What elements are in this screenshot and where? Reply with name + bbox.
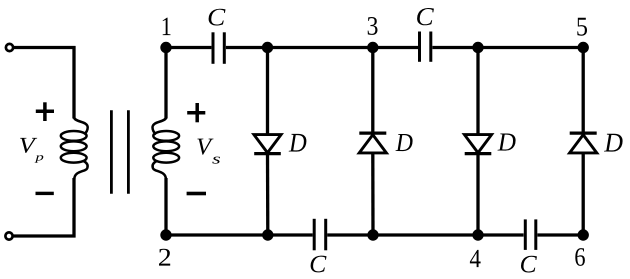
capacitor C2 [420, 32, 431, 62]
label D4 [604, 134, 623, 152]
node 2 [160, 229, 171, 240]
wire col2 top [371, 48, 374, 134]
wire bottom bus: node2 to C3 [166, 233, 313, 236]
transformer core [111, 110, 128, 193]
label D1 [289, 134, 307, 152]
wire col3 bottom [476, 154, 479, 235]
label C1 [209, 9, 226, 26]
wire col1 top [266, 48, 269, 136]
label 2 [159, 249, 170, 266]
wire J2 to primary bottom [14, 234, 76, 237]
label 6 [575, 248, 585, 266]
diode D4 (up) [570, 133, 597, 153]
label minus (primary) [36, 192, 54, 195]
wire col3 top [476, 48, 479, 136]
wire primary vertical bottom [72, 178, 75, 238]
inductor primary winding [61, 117, 88, 179]
capacitor C1 [213, 32, 224, 64]
wire top bus: C2 to node5 [432, 46, 583, 49]
label 1 [163, 18, 171, 35]
label C2 [417, 8, 434, 25]
capacitor C4 [525, 219, 536, 250]
inductor secondary winding [153, 117, 180, 179]
label 3 [368, 17, 378, 35]
wire top bus: C1 to C2 [226, 46, 418, 49]
junction top col3 [472, 42, 483, 53]
wire col1 bottom [266, 154, 270, 235]
wire primary vertical top [72, 46, 75, 119]
junction top col1 [262, 42, 273, 53]
wire secondary vertical bottom [164, 178, 167, 235]
wire bottom bus: C3 to C4 [327, 233, 523, 236]
capacitor C3 [314, 219, 326, 251]
wire col2 bottom [371, 153, 375, 235]
label D3 [498, 134, 516, 151]
label 4 [470, 250, 481, 267]
node 1 [160, 42, 171, 53]
junction bottom col1 [262, 229, 273, 240]
node 3 [367, 42, 378, 53]
label D2 [396, 134, 413, 151]
label + (primary) [36, 102, 54, 121]
wire col4 bottom [582, 153, 585, 235]
label 5 [577, 18, 587, 36]
diode D3 (down) [464, 135, 491, 154]
node 5 [578, 42, 589, 53]
wire top bus: node1 to C1 [166, 46, 211, 49]
label + (secondary) [187, 103, 205, 122]
terminal J1 (top input) [6, 44, 13, 51]
diode D2 (up) [359, 133, 386, 153]
label minus (secondary) [187, 192, 206, 196]
wire secondary vertical top [164, 48, 167, 119]
label Vs [197, 139, 213, 155]
wire bottom bus: C4 to node6 [537, 233, 583, 236]
node 6 [578, 229, 589, 240]
label C4 [521, 256, 537, 273]
wire J1 to primary top [14, 46, 76, 49]
junction bottom col2 [367, 229, 378, 240]
wire col4 top [582, 48, 585, 134]
diode D1 (down) [254, 135, 281, 154]
label C3 [311, 256, 327, 273]
node 4 [472, 229, 483, 240]
label Vp [20, 138, 37, 153]
terminal J2 (bottom input) [5, 232, 12, 239]
